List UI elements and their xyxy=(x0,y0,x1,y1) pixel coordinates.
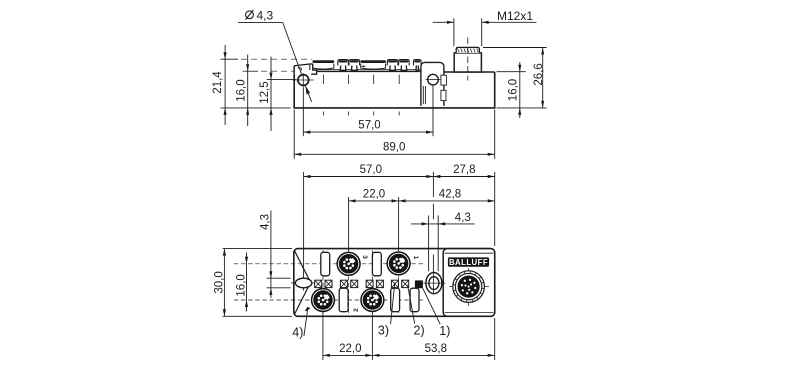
side view: M12 connector knurled top xyxy=(456,47,479,53)
dimension 16,0 (bottom view) xyxy=(236,253,249,312)
side view: reference line 21,4 xyxy=(221,58,312,60)
svg-text:42,8: 42,8 xyxy=(439,188,461,200)
side view: small ridge mark xyxy=(362,65,365,67)
side view: post hole circle xyxy=(426,74,441,85)
svg-text:27,8: 27,8 xyxy=(453,164,475,176)
dimension 26,6 (side right) xyxy=(533,48,545,108)
side view: M12 connector centerline xyxy=(467,38,469,81)
side view: flange hole circle (diam 4,3) xyxy=(293,73,314,87)
bottom view: chamfer triangle xyxy=(295,251,311,314)
dimension 89,0 (side) extension lines xyxy=(294,110,495,159)
bottom view: diagnostic LED (dark) xyxy=(415,280,423,288)
svg-text:30,0: 30,0 xyxy=(214,271,226,293)
svg-text:21,4: 21,4 xyxy=(212,71,224,94)
bottom view: M12 male plug xyxy=(453,271,485,303)
label 4) with leader xyxy=(292,307,310,340)
dimension 57,0 (side) xyxy=(303,120,433,134)
dimension 22,0 (bottom view top) xyxy=(349,188,399,202)
svg-text:1): 1) xyxy=(439,324,450,338)
dimension 4,3 reference lines (slot height) xyxy=(267,278,291,288)
bottom view: port digit 1 xyxy=(412,256,419,260)
side view: socket centerline 4 xyxy=(398,75,400,116)
svg-text:1: 1 xyxy=(412,256,419,260)
bottom view: M12 socket port 2 xyxy=(360,288,384,312)
bottom view: socket vertical centerline 2 xyxy=(348,250,350,314)
svg-text:4,3: 4,3 xyxy=(257,9,274,23)
bottom view: LED indicator 2 xyxy=(325,280,332,287)
bottom view: mounting hole crosshair xyxy=(423,273,445,294)
dimension M12x1 label xyxy=(497,9,533,23)
dimension 22,0 / 42,8 extension lines (bottom view) xyxy=(349,197,399,251)
dimension 12,5 (side left) xyxy=(259,57,273,132)
side view: socket centerline 1 xyxy=(323,75,325,116)
svg-text:26,6: 26,6 xyxy=(533,63,545,85)
bottom view: housing body outline xyxy=(294,249,495,317)
label 2) with leader xyxy=(408,285,425,338)
leader diam 4,3 line xyxy=(238,22,312,101)
svg-text:2: 2 xyxy=(353,308,360,312)
side view: right ref line middle xyxy=(497,71,526,73)
side view: right ref line bottom xyxy=(497,107,547,109)
dimension 16,0 (side left) xyxy=(236,55,250,127)
dimension 4,3 (slot height) xyxy=(260,211,273,299)
side view: blank cap profile 1a xyxy=(338,60,349,71)
side view: right mounting post xyxy=(421,62,444,106)
bottom view: left bottom reference line xyxy=(223,315,292,317)
bottom view: oval mounting slot xyxy=(291,275,317,290)
bottom view: top blank cap 2 xyxy=(372,252,381,275)
bottom view: row centerline bottom xyxy=(234,299,425,301)
svg-text:4,3: 4,3 xyxy=(455,212,471,224)
side view: blank cap profile 3 xyxy=(414,60,422,71)
bottom view: M12 socket port 4 xyxy=(311,288,335,312)
side view: blank cap profile 1b xyxy=(349,60,360,71)
bottom view: LED indicator 7 xyxy=(391,280,398,287)
dimension 57,0 (side) extension lines xyxy=(303,85,433,136)
dimension 22,0 (bottom) xyxy=(323,343,373,357)
dimension M12x1 line and arrows xyxy=(433,21,537,24)
svg-text:22,0: 22,0 xyxy=(363,188,385,200)
bottom view: LED indicator 8 xyxy=(402,280,409,287)
side view: post inner slots xyxy=(423,75,446,104)
bottom view: socket vertical centerline 1 xyxy=(322,250,324,314)
dimension 27,8 (bottom view) xyxy=(433,164,494,178)
svg-text:16,0: 16,0 xyxy=(236,79,248,101)
side view: right ref line top xyxy=(483,47,547,49)
dimension 4,3 extension lines (hole width) xyxy=(429,215,439,271)
label 1) with leader xyxy=(421,285,450,338)
dimension M12x1 extension lines xyxy=(454,18,482,46)
svg-text:53,8: 53,8 xyxy=(425,343,447,355)
bottom view: row centerline top xyxy=(234,263,423,265)
svg-text:12,5: 12,5 xyxy=(259,81,271,103)
svg-text:16,0: 16,0 xyxy=(508,79,520,101)
bottom view: port digit 3 xyxy=(361,255,368,259)
svg-text:57,0: 57,0 xyxy=(360,164,382,176)
dimension 4,3 (hole width) xyxy=(411,212,475,225)
side view: socket centerline 3 xyxy=(373,75,375,116)
bottom view: bottom blank cap 2 xyxy=(391,288,400,312)
bottom view: top blank cap 1 xyxy=(321,252,330,275)
dimension 42,8 (bottom view) xyxy=(399,188,495,202)
svg-text:2): 2) xyxy=(414,323,425,337)
dimension 16,0 (side right) xyxy=(508,62,522,118)
svg-text:BALLUFF: BALLUFF xyxy=(449,258,488,267)
svg-text:16,0: 16,0 xyxy=(236,274,248,296)
svg-text:22,0: 22,0 xyxy=(339,343,361,355)
side view: blank cap profile 2a xyxy=(387,60,398,71)
side view: M12 socket profile bump 2 xyxy=(360,60,386,69)
side view: housing body outline xyxy=(294,66,495,108)
bottom view: right section outline xyxy=(443,249,495,317)
dimension 57,0 (bottom view) xyxy=(304,164,434,178)
bottom view: M12 socket port 1 xyxy=(386,251,410,275)
bottom view: M12 plug crosshair xyxy=(449,268,489,305)
dimension 57,0 / 27,8 extension lines (bottom view) xyxy=(304,172,495,278)
bottom view: Balluff logo xyxy=(448,257,489,266)
bottom view: socket vertical centerline 4 xyxy=(398,250,400,314)
bottom view: M12 socket port 3 xyxy=(336,252,360,276)
label diam 4,3 xyxy=(246,9,274,23)
dimension 22,0 / 53,8 extension lines (bottom) xyxy=(323,312,495,360)
bottom view: bottom blank cap 1 xyxy=(339,288,348,312)
bottom view: LED indicator 6 xyxy=(376,280,383,287)
side view: M12 connector nut xyxy=(454,53,481,72)
dimension 53,8 (bottom) xyxy=(372,343,494,357)
svg-text:57,0: 57,0 xyxy=(358,120,380,132)
svg-text:4,3: 4,3 xyxy=(260,214,272,230)
side view: bottom reference baseline xyxy=(221,107,291,109)
bottom view: port digit 2 xyxy=(353,308,360,312)
svg-text:M12x1: M12x1 xyxy=(497,9,533,23)
bottom view: LED indicator 5 xyxy=(366,280,373,287)
bottom view: bottom blank cap 3 xyxy=(410,288,419,312)
dimension 30,0 (bottom view) xyxy=(214,249,227,317)
side view: M12 socket profile bump 1 xyxy=(312,60,334,69)
side view: socket centerline 2 xyxy=(348,75,350,116)
bottom view: LED indicator 1 xyxy=(315,280,322,287)
bottom view: LED indicator 3 xyxy=(340,280,347,287)
bottom view: mounting hole (4,3) xyxy=(426,273,442,294)
side view: left mounting flange xyxy=(294,64,316,75)
label 3) with leader xyxy=(378,283,395,338)
svg-text:4): 4) xyxy=(292,326,303,340)
side view: reference line 12,5 xyxy=(267,79,297,81)
dimension 89,0 (side) xyxy=(294,141,495,156)
svg-text:3: 3 xyxy=(361,255,368,259)
svg-text:89,0: 89,0 xyxy=(383,141,405,153)
side view: reference line 16,0 xyxy=(243,70,294,72)
bottom view: left top reference line xyxy=(223,248,292,250)
bottom view: socket vertical centerline 3 xyxy=(371,250,373,314)
bottom view: LED indicator 4 xyxy=(351,280,358,287)
side view: blank cap profile 2b xyxy=(399,60,410,71)
dimension 21,4 (side left) xyxy=(212,45,227,125)
svg-text:3): 3) xyxy=(378,323,389,337)
